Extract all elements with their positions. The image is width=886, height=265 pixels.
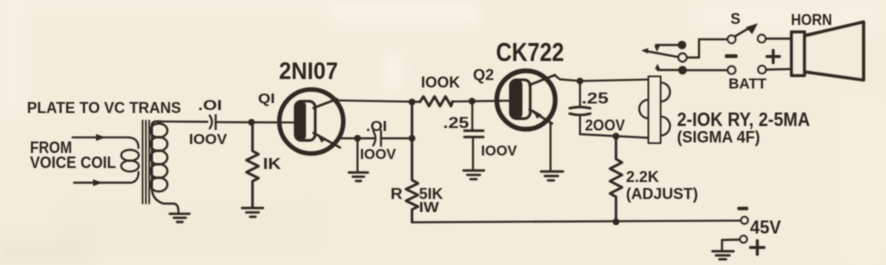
bottom rail -45V [412, 221, 741, 223]
switch S terminal left [728, 35, 736, 43]
node 100K/.25 cap [469, 98, 476, 105]
battery terminal plus [758, 66, 766, 74]
transistor Q2 emitter with arrow [530, 110, 553, 124]
svg-text:(SIGMA 4F): (SIGMA 4F) [677, 128, 760, 147]
svg-text:PLATE TO VC TRANS: PLATE TO VC TRANS [27, 100, 181, 117]
svg-text:CK722: CK722 [496, 37, 564, 67]
ground under C3 [464, 171, 485, 180]
node 2.2K top [613, 133, 620, 140]
transformer T1 core [143, 121, 150, 204]
svg-text:45V: 45V [750, 218, 781, 238]
svg-text:Q2: Q2 [473, 67, 494, 84]
capacitor C3 .25 [471, 101, 473, 129]
svg-text:IK: IK [263, 156, 282, 173]
transformer T1 primary winding [121, 150, 139, 161]
wire voice-coil top lead with arrow [73, 137, 139, 148]
resistor R3 2.2K [610, 136, 622, 222]
svg-text:2OOV: 2OOV [585, 118, 625, 135]
svg-text:IW: IW [419, 199, 440, 216]
resistor R 51K 1W [406, 102, 418, 222]
relay contact upper fixed [656, 44, 678, 46]
relay contact lower fixed [655, 64, 660, 70]
svg-text:BATT: BATT [729, 77, 767, 93]
transistor Q2 base bar [510, 80, 522, 119]
capacitor C4 .25 200V [579, 81, 581, 107]
battery plus symbol [767, 50, 780, 62]
svg-text:IOOK: IOOK [421, 75, 460, 92]
plus mark [751, 241, 765, 255]
wire C4 bottom to relay bottom [580, 134, 649, 138]
terminal +45V return [740, 236, 747, 243]
node emitter/ground [354, 135, 361, 142]
svg-text:S: S [731, 11, 741, 28]
svg-text:QI: QI [258, 90, 275, 106]
capacitor C1 .01 [210, 116, 212, 129]
wire battery plus to horn [766, 68, 792, 71]
transistor Q2 collector [530, 75, 556, 85]
minus mark [737, 207, 748, 210]
node junction base/1K [248, 119, 255, 126]
wire Q2 collector to relay [555, 76, 649, 82]
wire C1 to Q1 base [216, 121, 296, 123]
resistor R2 100K [420, 97, 453, 107]
svg-text:2NI07: 2NI07 [279, 58, 338, 85]
wire Q1 emitter node [342, 137, 375, 139]
svg-text:HORN: HORN [791, 12, 832, 29]
svg-text:R: R [391, 186, 403, 203]
ground at battery return [713, 251, 734, 259]
wire switch to horn [766, 37, 792, 39]
ground under 1K [242, 208, 263, 217]
wire Q1 collector to 100K [336, 100, 420, 101]
wire terminal to ground [722, 240, 740, 251]
capacitor C2 .01 [373, 131, 375, 146]
transistor Q2 circle [497, 71, 555, 129]
resistor R1 1K [247, 125, 259, 208]
transistor Q1 collector [314, 99, 338, 108]
wire C2 to 51K line [381, 137, 412, 139]
wire voice-coil bottom lead with arrow [74, 172, 139, 183]
ground under transformer [170, 214, 190, 222]
svg-text:IOOV: IOOV [360, 146, 396, 163]
wire armature to switch S [687, 39, 728, 57]
switch S terminal right [758, 35, 766, 43]
ground under Q1 emitter [356, 141, 358, 173]
wire transformer to C1 [162, 120, 208, 122]
svg-text:.OI: .OI [198, 98, 222, 114]
transistor Q1 circle [279, 90, 343, 154]
node C2/51K [409, 135, 416, 142]
node rail/2.2K [613, 218, 620, 225]
relay RY1 coil [649, 77, 661, 144]
node collector/51K [409, 99, 416, 106]
svg-text:(ADJUST): (ADJUST) [626, 186, 698, 203]
battery minus symbol [725, 54, 738, 58]
svg-text:IOOV: IOOV [481, 143, 517, 160]
battery terminal minus [728, 66, 736, 74]
transistor Q1 emitter with arrow [314, 133, 341, 148]
svg-text:.25: .25 [582, 91, 609, 108]
ground under Q2 [541, 172, 563, 181]
svg-text:IOOV: IOOV [189, 131, 227, 148]
transistor Q1 base bar [295, 101, 306, 140]
svg-text:2.2K: 2.2K [626, 169, 659, 186]
svg-text:.OI: .OI [366, 119, 387, 135]
svg-text:VOICE COIL: VOICE COIL [30, 153, 116, 172]
wire Q2 emitter to ground [549, 122, 551, 171]
relay contact armature [644, 51, 679, 58]
horn speaker driver [792, 32, 805, 76]
svg-text:.25: .25 [443, 115, 469, 132]
horn speaker flare [805, 22, 864, 80]
wire 100K to Q2 base [453, 100, 511, 103]
terminal -45V [741, 217, 748, 224]
node collector/C4 [577, 78, 584, 85]
wire lower contact to battery minus [687, 69, 728, 71]
switch S lever with arrow [735, 28, 750, 37]
transformer T1 secondary winding [152, 121, 162, 125]
